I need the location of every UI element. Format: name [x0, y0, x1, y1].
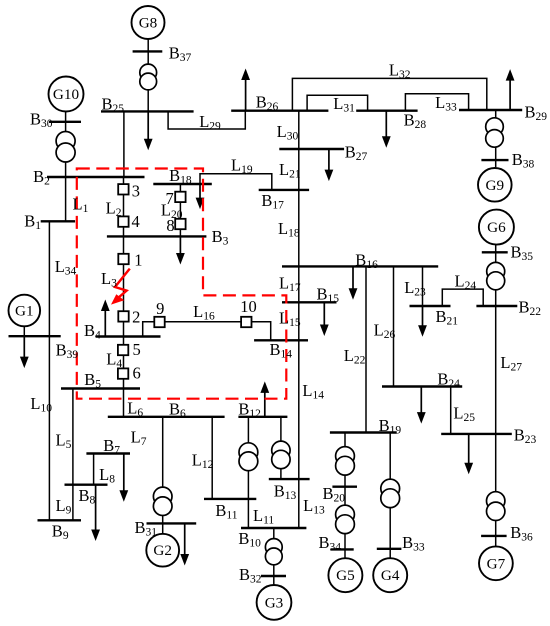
svg-text:4: 4	[132, 212, 140, 231]
svg-text:G10: G10	[53, 86, 80, 103]
svg-text:1: 1	[134, 250, 142, 269]
svg-text:8: 8	[166, 216, 174, 235]
svg-text:G2: G2	[153, 542, 172, 559]
svg-text:2: 2	[132, 308, 140, 327]
svg-text:G1: G1	[15, 303, 34, 320]
svg-text:G3: G3	[265, 594, 284, 611]
svg-text:9: 9	[156, 299, 164, 318]
svg-text:5: 5	[133, 340, 141, 359]
svg-text:G7: G7	[487, 555, 506, 572]
svg-text:6: 6	[133, 364, 141, 383]
svg-text:G8: G8	[139, 15, 158, 32]
svg-text:7: 7	[166, 189, 174, 208]
svg-text:3: 3	[132, 181, 140, 200]
svg-text:10: 10	[240, 297, 257, 316]
svg-text:G4: G4	[381, 567, 400, 584]
svg-text:G9: G9	[486, 177, 505, 194]
svg-text:G6: G6	[487, 219, 506, 236]
svg-text:G5: G5	[336, 567, 355, 584]
